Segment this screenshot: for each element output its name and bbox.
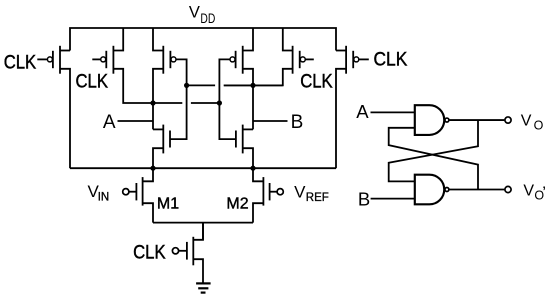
svg-text:CLK: CLK	[76, 70, 109, 91]
wire U2 output	[449, 189, 504, 191]
svg-text:M1: M1	[157, 196, 179, 213]
terminal VO'	[505, 186, 511, 192]
label VDD	[189, 3, 216, 26]
terminal CLK (tail)	[172, 248, 178, 254]
svg-text:A: A	[356, 101, 369, 122]
svg-text:CLK: CLK	[133, 242, 166, 263]
wire tail drain stem	[202, 223, 204, 240]
transistor Q1 (PMOS, outer-left, CLK)	[37, 46, 70, 168]
svg-text:O: O	[534, 119, 544, 133]
VDD rail	[70, 28, 336, 51]
junction node A gate-tap	[217, 100, 222, 105]
wire Q3/M3 gate (node B)	[170, 59, 187, 139]
terminal VIN	[123, 189, 129, 195]
terminal VREF	[277, 189, 283, 195]
transistor M5 (NMOS tail, CLK)	[179, 223, 203, 284]
transistor M1 (NMOS input pair left, VIN)	[129, 168, 153, 222]
terminal VO	[505, 117, 511, 123]
label VIN	[88, 182, 110, 203]
wire A to NAND1	[371, 111, 416, 113]
transistor Q3 (PMOS latch left, gate to node B)	[153, 28, 176, 129]
transistor M2 (NMOS input pair right, VREF)	[253, 168, 277, 222]
wire node A lead	[118, 120, 154, 122]
svg-text:B: B	[358, 188, 370, 209]
junction mid rail left	[150, 166, 155, 171]
transistor Q6 (PMOS, outer-right, CLK)	[336, 46, 369, 168]
ground	[196, 283, 211, 292]
transistor Q4 (PMOS latch right, gate to node A)	[230, 28, 253, 129]
svg-text:CLK: CLK	[374, 49, 408, 70]
wire node A link	[191, 102, 220, 104]
svg-text:DD: DD	[200, 10, 215, 26]
transistor Q2 (PMOS, inner-left, CLK)	[92, 28, 182, 103]
transistor M3 (NMOS left, gate to node B)	[153, 125, 170, 169]
transistor M4 (NMOS right, gate to node A)	[236, 125, 253, 169]
wire node B link	[187, 84, 216, 86]
svg-text:V: V	[523, 182, 534, 199]
label VREF	[294, 182, 329, 204]
wire Q4/M4 gate (node A)	[219, 59, 236, 139]
NAND gate U2 (bottom)	[415, 175, 449, 205]
svg-text:CLK: CLK	[4, 52, 37, 73]
label VO	[521, 113, 544, 133]
svg-text:’: ’	[542, 183, 546, 202]
label VO'	[523, 182, 546, 202]
svg-text:A: A	[103, 112, 116, 133]
wire source rail of input pair	[153, 222, 253, 224]
junction node B gate-tap	[184, 83, 189, 88]
transistor Q5 (PMOS, inner-right, CLK)	[224, 28, 314, 85]
svg-text:V: V	[294, 182, 306, 201]
svg-text:CLK: CLK	[300, 70, 333, 91]
junction node B drain-tap	[250, 83, 255, 88]
junction mid rail right	[250, 166, 255, 171]
NAND gate U1 (top)	[415, 105, 449, 135]
svg-text:V: V	[189, 3, 200, 21]
svg-text:REF: REF	[306, 192, 329, 204]
wire node B lead	[253, 120, 288, 122]
svg-text:B: B	[291, 112, 304, 133]
svg-text:IN: IN	[98, 191, 110, 203]
svg-text:M2: M2	[226, 196, 248, 213]
wire U1 output	[449, 119, 504, 121]
wire U1 second input from U2 output (cross)	[389, 128, 478, 190]
wire U2 second input from U1 output (cross)	[389, 120, 478, 181]
wire B to NAND2	[371, 198, 415, 200]
wire mid rail	[70, 167, 336, 169]
svg-text:V: V	[521, 113, 532, 130]
junction node A drain-tap	[150, 100, 155, 105]
